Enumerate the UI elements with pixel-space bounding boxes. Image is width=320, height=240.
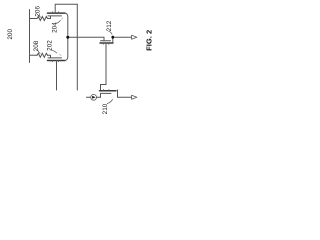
svg-text:210: 210 [102, 103, 109, 114]
top output open arrowhead [132, 35, 137, 39]
wire drain of 204 down to node A [65, 13, 68, 37]
node left supply rail [29, 10, 31, 63]
wire gate lead of 210 down to input wire [100, 93, 102, 97]
wire source of 204 up and over to right rail [55, 4, 77, 13]
wire bottom branch from rail to resistor [30, 54, 38, 56]
node A junction dot [66, 36, 69, 39]
svg-text:212: 212 [106, 20, 113, 31]
transistor 212 [100, 41, 113, 45]
svg-text:FIG. 2: FIG. 2 [144, 30, 153, 51]
svg-text:202: 202 [47, 40, 54, 51]
leader for label 210 [107, 99, 113, 103]
wire resistor 206 to gate of transistor 204 [48, 16, 51, 19]
leader arrowhead for 202 [59, 53, 62, 56]
leader for label 204 [56, 20, 61, 23]
wire source of 202 down (dead-end) [56, 61, 58, 91]
leader for label 202 [51, 50, 57, 53]
bottom output open arrowhead [132, 95, 137, 99]
wire source of 210 to bottom output arrow [116, 91, 131, 98]
leader arrowhead for 210 [113, 95, 115, 99]
resistor 208 [37, 53, 48, 57]
wire output node to top output arrow [113, 36, 131, 38]
wire resistor 208 to gate of transistor 202 [48, 55, 51, 58]
wire top branch from rail to resistor [30, 18, 38, 20]
wire node A to gate of transistor 212 [68, 36, 104, 38]
wire source of 212 down to drain of 210 [101, 43, 107, 91]
leader for label 206 [39, 15, 41, 17]
leader arrowhead for 212 [111, 34, 113, 37]
wire drain of 202 up to node A [65, 37, 68, 60]
node right rail (dead-end vertical) [76, 4, 78, 90]
leader arrowhead for 204 [61, 17, 63, 20]
transistor 204 [48, 12, 66, 16]
input terminal circle with arrow [91, 94, 97, 100]
transistor 202 [48, 58, 66, 62]
wire gate lead of 212 [103, 37, 105, 41]
svg-text:208: 208 [33, 40, 40, 51]
svg-text:204: 204 [51, 22, 58, 33]
wire input terminal to gate of 210 [87, 96, 91, 98]
svg-text:200: 200 [7, 29, 14, 40]
wire drain of 212 up to output node [112, 37, 114, 43]
transistor 210 [100, 90, 116, 94]
output node junction dot [111, 36, 114, 39]
leader for label 208 [38, 50, 41, 53]
svg-text:206: 206 [34, 6, 41, 17]
resistor 206 [37, 17, 48, 21]
leader for label 212 [108, 31, 112, 34]
